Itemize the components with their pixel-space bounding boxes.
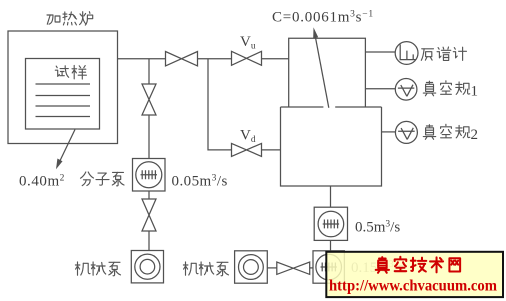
- leader arrow line from sample box to 0.40m2 label: [58, 130, 76, 166]
- lower chamber top edge with orifice gap: [281, 106, 382, 108]
- valve Vu (horizontal bowtie): [232, 51, 262, 65]
- molecular pump P1 rotor circle: [136, 162, 162, 188]
- wire Vd to lower chamber: [262, 149, 281, 151]
- wire chamber to mass spectrometer: [365, 51, 395, 53]
- pump P3 hatching: [321, 263, 337, 272]
- mechanical pump B1 inner circle: [140, 259, 155, 274]
- pump P3 box: [313, 251, 344, 283]
- sample shelf lines: [36, 84, 91, 117]
- pump P2 (0.5) box: [314, 207, 347, 240]
- valve V2 (vertical bowtie): [142, 84, 156, 115]
- vacuum gauge 1 icon: [398, 85, 414, 97]
- molecular pump P1 box: [133, 159, 166, 192]
- wire chamber to vacuum gauge 1: [365, 88, 395, 90]
- wire valve V4 to pump P3: [310, 267, 313, 269]
- svg-text:Vd: Vd: [240, 128, 256, 146]
- label 机械泵 middle: [183, 262, 228, 276]
- wire Vu to upper chamber: [262, 58, 289, 60]
- watermark box: [326, 252, 503, 297]
- svg-text:2: 2: [471, 127, 479, 143]
- furnace inner box (sample chamber): [26, 59, 100, 130]
- mechanical pump B2 box: [235, 251, 268, 283]
- svg-text:1: 1: [471, 84, 479, 100]
- svg-text:Vu: Vu: [240, 34, 256, 52]
- valve V3 (vertical bowtie): [142, 199, 156, 231]
- valve V4 (horizontal bowtie): [277, 262, 310, 274]
- vacuum gauge 1 circle: [395, 79, 417, 101]
- mechanical pump B1 box: [131, 251, 163, 283]
- mass spectrometer circle U1: [395, 42, 418, 65]
- wire valve3 to mechanical pump: [148, 231, 150, 251]
- svg-text:0.40m2: 0.40m2: [19, 174, 65, 190]
- label 机械泵 left: [75, 262, 120, 276]
- label 试样: [55, 66, 86, 80]
- watermark title 真空技术网: [376, 257, 460, 273]
- mechanical pump B2 outer circle: [239, 255, 264, 280]
- arrowhead of conductance leader: [313, 27, 318, 38]
- mechanical pump B2 inner circle: [244, 260, 259, 275]
- label 真空规2: [423, 124, 470, 139]
- vacuum gauge 2 icon: [398, 128, 415, 140]
- conductance leader diagonal line: [315, 36, 329, 108]
- pump P2 rotor circle: [318, 211, 344, 237]
- mechanical pump B1 outer circle: [135, 254, 160, 279]
- wire valve2 to molecular pump: [148, 115, 150, 159]
- lower chamber box: [281, 107, 382, 186]
- wire pump P1 to valve V3: [148, 191, 150, 199]
- svg-text:0.5m3/s: 0.5m3/s: [355, 220, 400, 236]
- wire valve1 to T junction and on to Vu: [198, 58, 232, 60]
- valve Vd (horizontal bowtie): [232, 143, 262, 156]
- pump P2 hatching: [323, 220, 339, 229]
- pump P3 rotor circle: [316, 254, 342, 280]
- wire lower chamber to vacuum gauge 2: [382, 131, 396, 133]
- vacuum gauge 2 circle: [395, 121, 417, 143]
- wire pump P2 to pump P3: [330, 240, 332, 250]
- label 分子泵: [81, 172, 125, 186]
- label 质谱计: [421, 47, 466, 60]
- wire down from junction x149: [148, 59, 150, 84]
- svg-text:0.05m3/s: 0.05m3/s: [172, 174, 228, 190]
- wire lower chamber down to pump P2: [330, 186, 332, 207]
- furnace outer box: [8, 31, 118, 144]
- CJK labels drawn as stroke glyphs: [47, 12, 470, 276]
- wire down from junction x208 to Vd branch: [208, 59, 232, 150]
- mass spectrometer icon: [400, 44, 415, 59]
- wire furnace to valve1: [118, 58, 166, 60]
- upper chamber box: [289, 38, 366, 107]
- svg-text:C=0.0061m3s−1: C=0.0061m3s−1: [272, 10, 374, 26]
- arrowhead of area leader: [56, 159, 63, 170]
- svg-text:http://www.chvacuum.com: http://www.chvacuum.com: [329, 278, 497, 295]
- wire pump B2 to valve V4: [267, 267, 277, 269]
- label 真空规1: [423, 81, 470, 96]
- label 加热炉: [47, 12, 93, 25]
- molecular pump P1 hatching: [141, 170, 158, 179]
- valve V1 (horizontal bowtie): [166, 52, 198, 66]
